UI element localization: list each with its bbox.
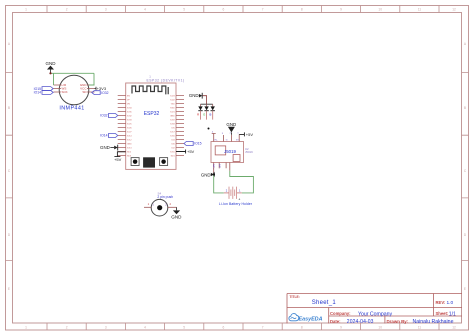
svg-text:Sheet:: Sheet:: [436, 311, 449, 316]
svg-text:1: 1: [25, 8, 27, 12]
svg-text:VN: VN: [127, 103, 130, 105]
svg-text:1/1: 1/1: [449, 312, 456, 318]
pin names: [127, 95, 176, 157]
+5V power (esp left bottom): [114, 152, 126, 162]
svg-text:J5019: J5019: [224, 149, 237, 154]
svg-text:12: 12: [452, 8, 456, 12]
svg-text:EasyEDA: EasyEDA: [299, 317, 323, 323]
svg-text:B: B: [464, 106, 466, 110]
svg-text:GND: GND: [46, 61, 57, 66]
svg-text:1: 1: [25, 326, 27, 330]
GND flag (esp left): [100, 145, 118, 151]
svg-text:8: 8: [301, 326, 303, 330]
svg-text:ESP32 (DEVKITV1): ESP32 (DEVKITV1): [147, 79, 185, 83]
svg-text:10: 10: [378, 8, 382, 12]
bottom pins: [214, 163, 230, 174]
led G: [203, 104, 209, 119]
svg-text:IN-: IN-: [215, 140, 218, 142]
svg-text:3: 3: [105, 8, 107, 12]
antenna meander: [132, 86, 168, 94]
svg-text:5: 5: [183, 8, 185, 12]
svg-text:7: 7: [262, 8, 264, 12]
svg-text:ESP32: ESP32: [144, 111, 160, 117]
net flag IO32 (mic SD): [92, 91, 109, 96]
+5V power (esp right bottom): [176, 149, 195, 154]
wire gnd to led rail: [203, 96, 207, 105]
svg-text:Date:: Date:: [330, 319, 340, 324]
svg-text:J5019: J5019: [245, 150, 253, 154]
svg-text:9: 9: [340, 8, 342, 12]
Li-Ion battery holder BT1: [219, 187, 253, 206]
wire mic L/R and GND to ground (green): [51, 73, 95, 85]
mic pins: [54, 85, 95, 92]
svg-text:+5V: +5V: [187, 149, 195, 154]
net flag IO15 (mic WS): [34, 87, 54, 91]
battery wiring (green): [214, 176, 224, 193]
svg-text:2: 2: [66, 8, 68, 12]
led B: [210, 104, 215, 119]
svg-text:GND: GND: [226, 122, 236, 127]
star mark: [208, 128, 210, 130]
+5V flag (J5019 top right): [239, 132, 244, 136]
svg-text:IO15: IO15: [194, 142, 201, 146]
svg-text:R: R: [197, 112, 199, 116]
ground below button: [171, 207, 182, 219]
svg-text:10: 10: [378, 326, 382, 330]
svg-text:B: B: [8, 106, 10, 110]
junction: [213, 173, 215, 175]
svg-text:G: G: [226, 140, 228, 142]
svg-text:TXD: TXD: [171, 103, 176, 105]
pin numbers top: [212, 131, 240, 141]
J5019 charger module U2: [201, 122, 254, 177]
net flag IO15 (esp right): [184, 142, 202, 146]
svg-text:2: 2: [66, 326, 68, 330]
left pins: [118, 96, 126, 156]
RGB LED D1: [189, 93, 215, 120]
svg-text:1.0: 1.0: [447, 300, 454, 306]
svg-text:BAT-: BAT-: [218, 164, 221, 169]
esp32 body: [126, 83, 176, 169]
svg-text:B: B: [210, 112, 212, 116]
junction node: [49, 72, 51, 74]
svg-text:11: 11: [418, 8, 422, 12]
svg-text:Nainalu Rakhaine: Nainalu Rakhaine: [413, 319, 454, 325]
svg-text:12: 12: [452, 326, 456, 330]
svg-text:E: E: [464, 287, 466, 291]
svg-text:BAT+: BAT+: [212, 164, 215, 170]
title block texts: [290, 295, 456, 325]
svg-text:Drawn By:: Drawn By:: [387, 319, 409, 324]
svg-text:GND: GND: [100, 145, 110, 150]
push button S4: [144, 192, 177, 216]
svg-text:RXD: RXD: [170, 107, 175, 109]
svg-text:GND: GND: [127, 143, 132, 145]
svg-text:4: 4: [144, 8, 146, 12]
svg-text:IO32: IO32: [101, 91, 108, 95]
svg-text:IO14: IO14: [34, 91, 41, 95]
svg-text:6: 6: [223, 326, 225, 330]
svg-text:11: 11: [418, 326, 422, 330]
svg-text:IO14: IO14: [100, 134, 107, 138]
svg-text:+5V: +5V: [246, 132, 254, 137]
svg-text:4: 4: [144, 326, 146, 330]
svg-text:SCK: SCK: [62, 90, 68, 94]
svg-text:E: E: [8, 287, 10, 291]
svg-text:GND: GND: [170, 115, 175, 117]
net flag IO14 (esp left): [100, 134, 118, 138]
net flag IO32 (esp left): [100, 114, 118, 118]
svg-text:7: 7: [262, 326, 264, 330]
INMP441 microphone U5: [54, 75, 95, 111]
EasyEDA logo: [289, 314, 323, 323]
svg-text:Your Company: Your Company: [358, 312, 393, 318]
title block: [287, 294, 462, 324]
button right: [160, 158, 168, 166]
svg-text:8: 8: [301, 8, 303, 12]
usb connector: [143, 157, 155, 167]
ground above mic: [46, 61, 57, 74]
svg-text:TITLE:: TITLE:: [290, 295, 300, 299]
svg-text:EN: EN: [127, 95, 130, 97]
svg-text:REV:: REV:: [436, 300, 446, 305]
svg-text:3: 3: [105, 326, 107, 330]
anode rail: [201, 103, 213, 105]
button left: [131, 158, 139, 166]
svg-text:+5V: +5V: [114, 157, 122, 162]
mic body circle: [59, 75, 89, 105]
svg-text:Company:: Company:: [330, 311, 350, 316]
svg-text:GND: GND: [189, 93, 199, 98]
top pins: [212, 134, 240, 142]
ESP32 module U1: [118, 75, 185, 170]
svg-text:+: +: [238, 197, 240, 201]
svg-text:G: G: [203, 112, 205, 116]
svg-text:Sheet_1: Sheet_1: [312, 300, 337, 306]
svg-text:5: 5: [183, 326, 185, 330]
svg-text:IO32: IO32: [100, 114, 107, 118]
svg-text:INMP441: INMP441: [59, 106, 84, 112]
svg-text:2 pin push: 2 pin push: [157, 195, 173, 199]
power flag +3V3 (mic VCC): [95, 86, 107, 91]
right pins: [176, 96, 184, 156]
net flag IO14 (mic SCK): [34, 90, 54, 94]
svg-text:GND: GND: [201, 172, 211, 177]
svg-text:6: 6: [223, 8, 225, 12]
svg-text:9: 9: [340, 326, 342, 330]
svg-text:2024-04-03: 2024-04-03: [347, 319, 374, 325]
svg-text:Li-Ion Battery Holder: Li-Ion Battery Holder: [219, 202, 253, 206]
svg-text:GND: GND: [171, 214, 182, 219]
led R: [197, 104, 203, 119]
